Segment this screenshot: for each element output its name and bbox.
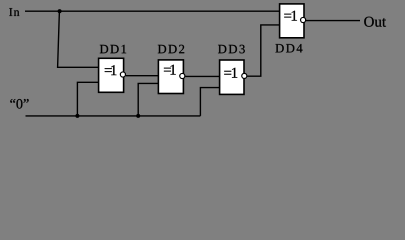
net label In [9, 8, 19, 16]
inversion bubble at DD3 output [242, 73, 247, 78]
value label =1 of DD4 [284, 11, 297, 21]
net label "0" [10, 99, 28, 109]
gate DD1 body [99, 58, 124, 92]
designator label DD4 [275, 44, 302, 52]
inversion bubble at DD4 output [301, 17, 306, 22]
wire: riser from "0" rail to DD2 pin 2 [138, 83, 158, 116]
gate DD4 body [280, 4, 304, 38]
wire: "0" net, bottom horizontal rail [26, 115, 201, 117]
gate DD2 body [158, 60, 183, 94]
wire: DD3 output up to DD4 pin 2 [247, 25, 279, 76]
node: junction on "0" rail below DD2 [136, 114, 140, 118]
wire: riser from "0" rail to DD1 pin 2 [77, 82, 98, 116]
wire: DD4 output to Out [306, 20, 360, 22]
designator label DD2 [158, 45, 184, 53]
value label =1 of DD3 [224, 68, 237, 78]
value label =1 of DD2 [164, 65, 176, 75]
gate DD3 (XNOR, =1 with inverted output) [220, 60, 244, 94]
inversion bubble at DD1 output [120, 72, 125, 77]
wire: DD1 output to DD2 pin 1 [126, 75, 159, 77]
value label =1 of DD1 [105, 65, 117, 75]
net label Out [364, 17, 386, 27]
node: junction of In net at branch [58, 9, 62, 13]
gate DD2 (XNOR, =1 with inverted output) [158, 60, 183, 94]
inversion bubble at DD2 output [180, 73, 185, 78]
wire: riser from "0" rail end to DD3 pin 2 [200, 88, 219, 116]
wire: DD2 output to DD3 pin 1 [185, 75, 220, 77]
node: junction on "0" rail below DD1 [75, 114, 79, 118]
gate DD1 (XNOR, =1 with inverted output) [99, 58, 124, 92]
wire: branch from In node down and right to DD1 pin 1 [58, 11, 99, 67]
wire: In net, horizontal to DD4 pin 1 [25, 10, 279, 12]
designator label DD3 [218, 45, 245, 54]
gate DD4 (XNOR, =1 with inverted output) [280, 4, 304, 38]
designator label DD1 [100, 45, 126, 53]
gate DD3 body [220, 60, 244, 94]
